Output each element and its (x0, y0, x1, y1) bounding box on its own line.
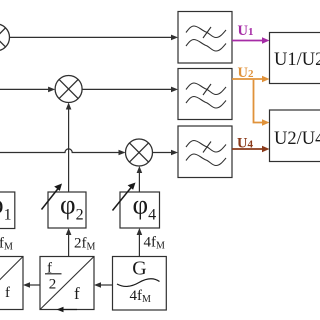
box U1/U2 (270, 33, 320, 84)
wire mixer M2 output to filter F2 (82, 87, 178, 93)
variable arrow of PHI4 (113, 183, 136, 211)
phase shifter PHI4 (120, 190, 160, 229)
svg-text:U2/U4: U2/U4 (274, 129, 320, 149)
wire PHI2 to mixer M2 (66, 103, 72, 193)
wire U2 filter F2 to box U1/U2 (232, 76, 270, 83)
mixer M1 (0, 24, 10, 51)
svg-text:G: G (132, 258, 146, 280)
wire mixer M1 output to filter F1 (10, 35, 179, 41)
svg-text:2: 2 (49, 277, 57, 293)
wire 4fM generator G to PHI4 (137, 228, 143, 257)
divider D1 (cropped left) (0, 257, 23, 310)
wire divider D2 to divider D1 (23, 282, 40, 288)
box U2/U4 (270, 110, 320, 162)
arrow on divider D2 bottom edge (57, 307, 78, 313)
svg-text:f: f (5, 285, 10, 301)
phase shifter PHI1 (0, 190, 15, 229)
filter F3 (178, 126, 232, 178)
svg-text:f: f (74, 284, 80, 303)
mixer M2 (55, 76, 82, 103)
wire generator G to divider D2 (94, 282, 113, 288)
wire input to mixer M3 (with hop over phi2 line) (0, 149, 126, 155)
generator G (113, 257, 167, 311)
wire U2 branch to box U2/U4 (254, 80, 270, 126)
svg-text:U1/U2: U1/U2 (274, 50, 320, 70)
wire input to mixer M2 (0, 87, 55, 93)
filter F1 (178, 12, 232, 64)
wire PHI4 to mixer M3 (137, 166, 143, 192)
wire U4 filter F3 to box U2/U4 (232, 146, 270, 153)
wire U1 filter F1 to box U1/U2 (232, 37, 270, 44)
mixer M3 (126, 139, 153, 166)
phase shifter PHI2 (48, 190, 86, 229)
wire mixer M3 output to filter F3 (153, 150, 179, 156)
filter F2 (178, 69, 232, 120)
wire 2fM divider D2 to PHI2 (66, 228, 72, 257)
variable arrow of PHI2 (42, 184, 63, 210)
divider D2 (40, 257, 94, 310)
svg-text:U1: U1 (238, 23, 254, 39)
